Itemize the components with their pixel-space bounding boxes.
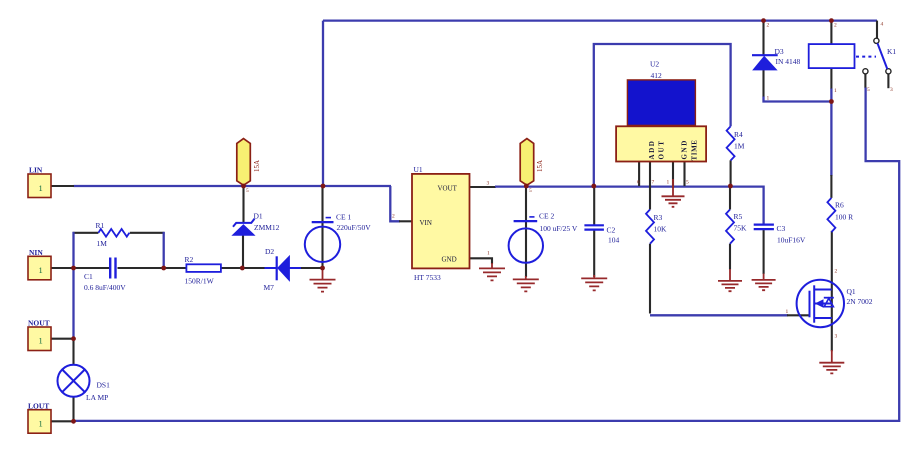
ground Q1	[819, 350, 844, 373]
wire VOUT rail blue y=186	[495, 187, 764, 224]
fuse F1	[237, 139, 261, 186]
node relay top	[829, 18, 834, 23]
fuse F2	[520, 139, 544, 186]
wire C2 vertical top	[593, 186, 595, 225]
svg-text:6: 6	[637, 180, 640, 186]
svg-text:2N 7002: 2N 7002	[847, 297, 873, 306]
svg-text:1: 1	[39, 418, 43, 428]
svg-text:C3: C3	[777, 224, 786, 233]
ground CE1	[310, 268, 336, 292]
svg-text:412: 412	[651, 71, 663, 80]
capacitor C1	[84, 258, 126, 293]
wire VIN stub black	[399, 220, 412, 222]
wire fuse2 CE2 vertical	[525, 186, 527, 277]
ground U1	[479, 263, 505, 280]
svg-text:7: 7	[652, 180, 655, 186]
svg-text:R3: R3	[654, 213, 663, 222]
node CE1 top	[321, 184, 326, 189]
svg-text:D3: D3	[775, 47, 784, 56]
ground R5	[718, 269, 742, 291]
wire U2 pin1 stub	[638, 162, 640, 187]
port NIN	[28, 248, 51, 280]
wire LIN port stub	[51, 185, 74, 187]
svg-text:K1: K1	[887, 47, 896, 56]
wire relay coil top stub	[830, 21, 832, 44]
svg-text:ZMM12: ZMM12	[254, 223, 280, 232]
ground CE2	[513, 276, 539, 291]
svg-text:C2: C2	[607, 225, 616, 234]
module U2 412	[616, 59, 706, 185]
svg-text:LA MP: LA MP	[86, 393, 108, 402]
svg-text:U1: U1	[414, 165, 423, 174]
wire NOUT port stub	[51, 338, 74, 340]
svg-text:Q1: Q1	[847, 287, 856, 296]
wire R1 loop left vertical blue	[72, 232, 74, 339]
svg-text:R6: R6	[835, 201, 844, 210]
svg-text:1M: 1M	[734, 142, 745, 151]
capacitor C2	[584, 225, 619, 244]
wire U2 pin2 to R3	[649, 162, 651, 210]
svg-text:OUT: OUT	[658, 140, 666, 160]
svg-text:CE 1: CE 1	[336, 213, 351, 222]
svg-text:2: 2	[834, 23, 837, 29]
svg-text:104: 104	[608, 235, 620, 244]
svg-text:1: 1	[39, 183, 43, 193]
wire R1 loop right vertical blue	[163, 232, 165, 268]
svg-text:1: 1	[767, 96, 770, 102]
svg-text:NIN: NIN	[29, 248, 43, 257]
svg-text:1: 1	[39, 265, 43, 275]
svg-text:1: 1	[39, 336, 43, 346]
svg-text:R2: R2	[185, 255, 194, 264]
node C1 right	[161, 266, 166, 271]
wire relay bottom to R6 blue	[830, 89, 832, 177]
wire R5 bottom stub	[729, 244, 731, 270]
svg-text:LIN: LIN	[29, 166, 43, 175]
diode D1 zener ZMM12	[233, 212, 280, 236]
svg-text:220uF/50V: 220uF/50V	[337, 223, 372, 232]
wire C3 bottom stub	[763, 229, 765, 274]
svg-text:D2: D2	[265, 247, 274, 256]
node D1 bottom	[240, 266, 245, 271]
wire gate stub black	[787, 314, 810, 316]
node NIN	[71, 266, 76, 271]
wire R4 bottom stub	[730, 160, 732, 186]
svg-text:ADD: ADD	[648, 140, 656, 160]
node U2 loop left	[591, 184, 596, 189]
wire gate horizontal blue	[650, 314, 788, 316]
pin tick marks	[246, 188, 532, 194]
svg-text:NOUT: NOUT	[28, 319, 50, 328]
resistor R4	[727, 126, 745, 160]
port LOUT	[28, 401, 51, 433]
node NOUT	[71, 336, 76, 341]
svg-text:1: 1	[667, 180, 670, 186]
svg-text:VIN: VIN	[420, 219, 432, 227]
node LOUT	[71, 419, 76, 424]
svg-text:VOUT: VOUT	[438, 185, 458, 193]
svg-text:CE 2: CE 2	[539, 211, 554, 220]
svg-text:3: 3	[835, 334, 838, 340]
wire U1 gnd pin	[470, 258, 493, 264]
svg-text:GND: GND	[442, 255, 457, 263]
relay K1	[809, 22, 897, 95]
wire R1 loop top left black	[73, 232, 99, 234]
wire relay coil bottom stub	[830, 68, 832, 89]
wire D3 top stub	[762, 21, 764, 56]
svg-text:C1: C1	[84, 272, 93, 281]
svg-text:GND: GND	[681, 139, 689, 159]
svg-text:150R/1W: 150R/1W	[185, 276, 215, 285]
svg-text:3: 3	[487, 181, 490, 187]
capacitor CE1	[305, 213, 371, 262]
wire R6 to Q1 drain	[831, 231, 833, 351]
wire D2 to CE1 node	[300, 267, 323, 269]
svg-text:IN 4148: IN 4148	[776, 57, 801, 66]
node relay bottom	[829, 99, 834, 104]
svg-text:2: 2	[835, 269, 838, 275]
wire R1 loop top right black	[130, 232, 165, 234]
svg-text:5: 5	[529, 188, 532, 194]
wire D1 top stub	[242, 186, 244, 223]
node fuse2/CE2	[524, 184, 529, 189]
lamp DS1	[58, 365, 111, 402]
wire R5 top stub	[729, 186, 731, 210]
diode D3 IN4148	[752, 23, 801, 102]
svg-text:10K: 10K	[654, 225, 668, 234]
svg-text:D1: D1	[254, 212, 263, 221]
node fuse1/D1	[241, 184, 246, 189]
svg-text:100 uF/25 V: 100 uF/25 V	[540, 224, 578, 233]
svg-text:15A: 15A	[253, 160, 261, 172]
wire R3 to gate elbow	[649, 244, 651, 314]
svg-text:TIME: TIME	[691, 139, 699, 160]
svg-text:5: 5	[246, 188, 249, 194]
svg-text:15A: 15A	[536, 160, 544, 172]
svg-text:10uF16V: 10uF16V	[777, 236, 806, 245]
resistor R3	[646, 210, 667, 244]
svg-text:1M: 1M	[97, 239, 108, 248]
wire switch top stub	[876, 21, 878, 38]
svg-text:100 R: 100 R	[835, 213, 853, 222]
ground C3	[752, 274, 776, 291]
svg-text:R1: R1	[96, 221, 105, 230]
svg-text:LOUT: LOUT	[28, 401, 49, 410]
wire U2 pin3 gnd stub	[672, 162, 674, 189]
svg-text:1: 1	[834, 88, 837, 94]
svg-text:R4: R4	[734, 130, 743, 139]
svg-text:2: 2	[767, 23, 770, 29]
svg-text:HT 7533: HT 7533	[414, 273, 441, 282]
resistor R5	[726, 210, 747, 244]
resistor R1	[96, 221, 130, 248]
wire C2 vertical bottom	[593, 229, 595, 277]
wire switch nc stub	[887, 74, 889, 88]
node R4/R5/C3	[728, 184, 733, 189]
svg-text:4: 4	[881, 22, 884, 28]
port NOUT	[28, 319, 51, 351]
wire LIN rail y=186 blue	[74, 185, 392, 187]
wire U2 pin4 stub	[683, 162, 685, 187]
diode D2 M7	[264, 247, 302, 292]
wire NOUT vertical above	[72, 339, 74, 365]
wire R2 to D1 node	[221, 267, 265, 269]
ground C2	[581, 275, 607, 290]
wire top rail y=20.6	[323, 19, 877, 21]
wire top net vertical x=323	[322, 21, 324, 186]
port LIN	[28, 166, 51, 198]
node CE1 bottom	[320, 266, 325, 271]
svg-text:5: 5	[686, 180, 689, 186]
wire right side net	[74, 88, 900, 421]
svg-text:0.6 8uF/400V: 0.6 8uF/400V	[84, 283, 126, 292]
svg-text:2: 2	[392, 214, 395, 220]
transistor Q1 2N7002	[786, 269, 873, 340]
resistor R6	[827, 198, 853, 232]
svg-text:R5: R5	[734, 212, 743, 221]
capacitor C3	[754, 224, 806, 244]
wire CE1 vertical	[321, 186, 323, 268]
svg-text:5: 5	[867, 87, 870, 93]
wire D1 bottom stub	[242, 235, 244, 268]
resistor R2	[185, 255, 221, 285]
wire VOUT stub black	[470, 186, 497, 188]
capacitor CE2	[509, 211, 578, 262]
wire R6 top stub	[830, 175, 832, 198]
svg-text:DS1: DS1	[97, 380, 111, 389]
svg-text:1: 1	[487, 251, 490, 257]
wire D3 bottom stub	[762, 70, 764, 97]
svg-text:1: 1	[786, 309, 789, 315]
wire VIN step	[390, 186, 400, 221]
wire U2 loop	[594, 44, 731, 186]
wire NIN net horizontal black	[51, 267, 109, 269]
wire switch com stub	[864, 74, 866, 88]
svg-text:75K: 75K	[734, 224, 748, 233]
ground U2	[662, 179, 685, 207]
node D3 top	[761, 18, 766, 23]
wire LOUT port stub	[51, 420, 74, 422]
svg-text:M7: M7	[264, 283, 275, 292]
IC U1 HT7533	[392, 165, 490, 282]
wire lamp to LOUT	[72, 397, 74, 422]
wire C1 right to R2	[118, 267, 187, 269]
svg-text:U2: U2	[650, 59, 659, 68]
svg-text:3: 3	[890, 87, 893, 93]
wire D3 to relay bottom blue	[764, 97, 832, 102]
